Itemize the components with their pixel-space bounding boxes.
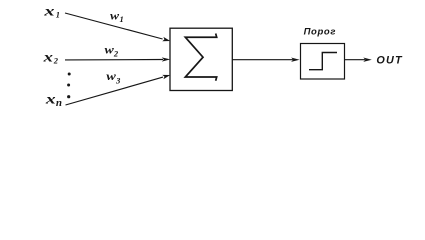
arrowhead input 3 (162, 75, 170, 79)
wire input 2 (x2 to summator) (65, 59, 163, 61)
svg-text:1: 1 (56, 10, 60, 20)
wire input 3 (xn to summator) (66, 77, 164, 105)
svg-text:w: w (106, 69, 116, 83)
ellipsis dot 3 (67, 95, 70, 98)
summation sigma symbol (185, 34, 216, 80)
weight label w2 (105, 42, 119, 58)
svg-text:x: x (42, 50, 52, 65)
svg-text:2: 2 (113, 49, 119, 59)
svg-text:Порог: Порог (304, 27, 336, 38)
input label x1 (43, 4, 60, 20)
wire input 1 (x1 to summator) (65, 13, 163, 39)
svg-text:n: n (56, 97, 62, 109)
wire summator to threshold block (232, 59, 293, 61)
arrowhead to OUT (363, 58, 372, 62)
arrowhead input 2 (162, 57, 171, 61)
svg-text:w: w (105, 42, 115, 56)
svg-text:1: 1 (120, 14, 124, 24)
input label xn (45, 91, 62, 109)
svg-text:x: x (43, 4, 55, 19)
svg-text:OUT: OUT (376, 55, 403, 67)
arrowhead into threshold block (291, 58, 300, 62)
threshold block body (301, 44, 345, 80)
ellipsis dot 1 (68, 73, 71, 76)
svg-text:w: w (110, 9, 120, 22)
wire threshold block to OUT (345, 59, 366, 61)
ellipsis dot 2 (67, 84, 70, 87)
svg-text:3: 3 (115, 76, 121, 86)
weight label w1 (110, 9, 124, 24)
arrowhead input 1 (162, 37, 170, 41)
summation block body (170, 28, 232, 90)
input label x2 (42, 50, 58, 66)
svg-text:2: 2 (53, 56, 59, 66)
svg-text:x: x (45, 91, 56, 106)
weight label w3 (106, 69, 121, 85)
threshold step-function icon (309, 53, 337, 70)
